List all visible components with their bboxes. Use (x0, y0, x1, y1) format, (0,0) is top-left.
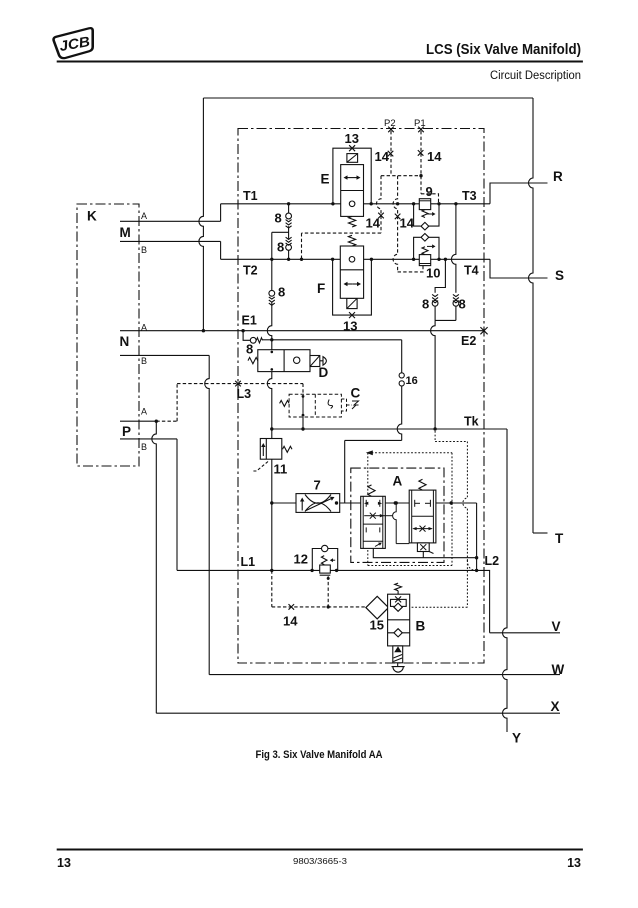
svg-text:8: 8 (246, 342, 253, 357)
svg-text:F: F (317, 281, 325, 296)
svg-text:14: 14 (375, 149, 390, 164)
svg-text:P1: P1 (414, 118, 426, 129)
svg-text:P2: P2 (384, 118, 396, 129)
svg-text:10: 10 (426, 266, 440, 281)
svg-text:T: T (555, 531, 564, 546)
svg-text:D: D (319, 365, 329, 380)
svg-text:T4: T4 (464, 264, 479, 278)
svg-text:P: P (122, 424, 131, 439)
svg-text:E1: E1 (242, 314, 257, 328)
svg-text:14: 14 (400, 216, 415, 231)
svg-text:A: A (393, 474, 403, 489)
svg-text:M: M (120, 225, 131, 240)
svg-text:S: S (555, 268, 564, 283)
svg-text:A: A (141, 211, 147, 221)
svg-text:12: 12 (294, 552, 308, 567)
svg-text:B: B (141, 356, 147, 366)
svg-text:16: 16 (406, 375, 418, 387)
svg-text:B: B (141, 245, 147, 255)
svg-text:9803/3665-3: 9803/3665-3 (293, 856, 347, 866)
svg-text:8: 8 (275, 211, 282, 226)
svg-text:R: R (553, 169, 563, 184)
svg-text:Y: Y (512, 731, 521, 746)
svg-text:N: N (120, 334, 130, 349)
svg-text:T3: T3 (462, 189, 477, 203)
svg-text:7: 7 (314, 478, 321, 493)
svg-text:8: 8 (277, 240, 284, 255)
svg-text:8: 8 (422, 297, 429, 312)
svg-text:15: 15 (370, 618, 384, 633)
svg-text:14: 14 (366, 216, 381, 231)
svg-text:V: V (552, 619, 561, 634)
svg-text:9: 9 (426, 184, 433, 199)
svg-text:T1: T1 (243, 189, 258, 203)
svg-text:14: 14 (283, 614, 298, 629)
svg-text:8: 8 (459, 297, 466, 312)
svg-text:8: 8 (278, 285, 285, 300)
svg-text:L3: L3 (237, 387, 252, 401)
svg-text:E2: E2 (461, 334, 476, 348)
svg-text:Circuit Description: Circuit Description (490, 70, 581, 82)
svg-text:Tk: Tk (464, 415, 479, 429)
svg-text:L1: L1 (241, 555, 256, 569)
svg-text:Fig 3. Six Valve Manifold AA: Fig 3. Six Valve Manifold AA (256, 749, 383, 761)
svg-text:E: E (321, 172, 330, 187)
svg-text:13: 13 (343, 319, 357, 334)
svg-text:T2: T2 (243, 264, 258, 278)
svg-text:A: A (141, 323, 147, 333)
svg-text:C: C (351, 386, 361, 401)
svg-text:K: K (87, 209, 97, 224)
svg-text:B: B (416, 619, 426, 634)
svg-text:W: W (552, 662, 565, 677)
svg-text:B: B (141, 442, 147, 452)
svg-text:14: 14 (427, 149, 442, 164)
svg-text:X: X (551, 699, 560, 714)
svg-text:11: 11 (274, 462, 288, 477)
svg-text:L2: L2 (485, 554, 500, 568)
svg-text:13: 13 (345, 131, 359, 146)
svg-text:A: A (141, 407, 147, 417)
svg-text:13: 13 (57, 856, 71, 870)
svg-text:LCS (Six Valve Manifold): LCS (Six Valve Manifold) (426, 42, 581, 58)
svg-text:13: 13 (567, 856, 581, 870)
